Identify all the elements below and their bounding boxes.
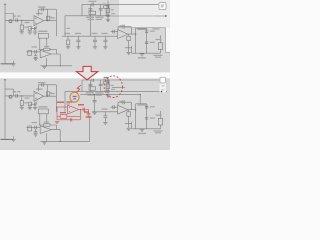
resistor R2 [28,27,31,31]
capacitor C15 [145,30,148,32]
wire feedback right drop [46,9,48,20]
wire fb2 right (bottom) [50,124,56,126]
label R1 value (bottom) [24,102,29,103]
label U1A [36,13,43,14]
ground G2 (bottom) [28,108,32,110]
wire fb2 left [38,48,43,50]
dashed wire highlight [156,15,165,17]
resistor R6 (bottom) [28,126,32,131]
gray d3 drop [94,95,96,112]
wire d1 drop [67,36,69,40]
node A junction [21,20,22,21]
node A junction (bottom) [21,95,22,96]
capacitor C1 [15,18,17,22]
annotation squiggle [76,85,81,93]
wire feedback left drop [38,9,40,15]
capacitor C10 (bottom) [103,116,107,118]
capacitor C2 feedback [41,7,43,11]
U1A input marks (bottom) [35,94,37,99]
wire left bottom (bottom) [1,138,14,140]
input connector arrow (bottom) [4,79,6,81]
wire input signal [5,19,34,21]
label U2 line1 (bottom) [86,92,104,93]
wire input signal (bottom) [5,95,34,97]
label out1 [154,55,163,56]
label input b (bottom) [25,98,30,99]
label chain (bottom) [103,79,114,86]
wire d4 drop (bottom) [104,112,106,116]
power rail top (bottom) [82,79,166,81]
label C2 [38,6,46,7]
wire R7 top (bottom) [128,110,130,112]
wire C12 gnd (bottom) [35,133,37,134]
wire st3 input [111,31,118,33]
zoom icon bottom [160,77,166,83]
label out2 (bottom) [155,132,161,133]
ground G7 [93,46,97,48]
red label a [78,104,84,105]
wire U1A inverting drop (bottom) [35,101,37,104]
wire d4 drop [104,36,106,40]
input jack J1 (bottom) [9,95,12,98]
wire drop B [100,4,102,15]
wire out drop [59,54,61,66]
red label b [84,111,89,112]
ground G11 (bottom) [11,139,15,141]
node F junction [94,94,95,95]
red wire stage input [56,106,67,108]
node H junction [107,79,108,80]
red wire fb left [56,107,58,120]
wire jack feed (bottom) [160,111,162,118]
ground G12 (bottom) [140,129,144,131]
label stage2 b [44,46,49,47]
wire R1 to ground [21,30,23,32]
label rail1 [64,33,70,34]
red junction out [80,109,81,110]
wire out drop (bottom) [59,130,61,142]
wire feedback left drop (bottom) [38,85,40,91]
dashed wire highlight (bottom) [156,91,165,93]
label st3 top [138,29,148,30]
label chain [103,3,106,4]
capacitor C16 [145,41,148,43]
wire VR1 left leg (bottom) [39,114,41,125]
wire R2 to ground (bottom) [29,106,31,108]
canvas border vertical [165,28,167,53]
ground G13 [126,52,130,54]
red op-amp U3 [68,105,79,114]
wire R2 to ground [29,30,31,32]
wire feedback right drop (bottom) [46,85,48,96]
label stage2 a [32,46,38,47]
node E junction (bottom) [135,109,136,110]
resistor R6 [28,50,32,55]
red U3 input marks [69,106,70,108]
bottom schematic background [0,78,170,150]
capacitor C6 (bottom) [99,84,103,86]
capacitor C10 [103,39,107,41]
wire R1 to ground (bottom) [21,106,23,108]
output jack J2 (bottom) [158,118,162,125]
wire out bus [135,28,137,53]
input line lead dots (bottom) [14,95,32,98]
wire fb2 drop (bottom) [55,125,57,130]
capacitor C4 [33,27,35,30]
capacitor C16 (bottom) [145,118,148,120]
ground G10 (bottom) [42,142,46,144]
wire fb3 right (bottom) [130,102,132,110]
wire VR1 right leg [46,38,48,48]
diode D1 (bottom) [92,78,94,82]
strip marks [162,85,165,86]
node B junction (bottom) [47,96,48,97]
gray rail bottom [92,111,118,113]
wire R7 bot [128,41,130,52]
ground G4 (bottom) [106,95,110,97]
ground G8 [103,46,107,48]
label volume [153,28,160,29]
label st3 top (bottom) [138,104,148,105]
label jack (bottom) [156,115,162,116]
ground G12 [140,53,144,55]
label input b [25,22,30,23]
wire U1A inverting drop [35,26,37,29]
wire power vertical (bottom) [64,91,66,111]
red ground G22 [86,113,90,115]
label chain b [111,13,115,14]
capacitor C6 [99,8,103,10]
ground G11 [11,63,15,65]
red wire out drop [88,110,90,114]
switch S1 body [106,8,109,13]
capacitor C11 (bottom) [35,126,37,130]
canvas border horizontal [119,27,166,29]
label GND [138,57,146,58]
op-amp U1C [118,30,128,39]
wire R3 drop [105,8,107,15]
bottom-right light strip [160,77,167,93]
resistor R4 [66,40,69,45]
wire cap link [146,28,148,53]
capacitor C5 (bottom) [88,84,92,86]
ground G9 [33,57,37,59]
red wire fb bottom [57,119,80,121]
IC charge pump U2 (bottom) [89,87,96,90]
wire out bus (bottom) [135,104,137,129]
resistor R5 feedback (bottom) [44,124,50,126]
IC charge pump U2 [89,11,96,14]
wire C9 gnd [94,42,96,47]
node end dot [161,91,163,93]
power rail mid [65,15,111,17]
wire R7 bot (bottom) [128,116,130,127]
wire fb2 drop [55,49,57,54]
wire U1A output [44,20,57,22]
capacitor C13 [122,25,124,29]
wire C4 to ground (bottom) [34,106,36,108]
capacitor C3 electrolytic [46,16,49,20]
label C2 (bottom) [38,82,46,83]
potentiometer VR1 (bottom) [38,109,48,114]
node D junction [60,65,61,66]
label stage2 b (bottom) [44,122,49,123]
ground G3 [33,31,37,33]
wire st2 gnd drop [35,54,37,56]
capacitor C12 [34,55,38,57]
label D1 [89,1,97,2]
annotation circle highlight [70,92,79,102]
potentiometer VR1 [38,33,48,38]
wire R1 drop (bottom) [21,96,23,101]
wire short link [112,86,125,88]
wire st3 input (bottom) [111,106,118,108]
wire jack gnd [160,49,162,53]
red label c [86,116,92,117]
red label top1 [57,102,64,103]
wire U1B out [51,53,60,55]
wire stage2 bottom [40,65,72,67]
capacitor C15 (bottom) [145,107,148,109]
capacitor C11 [34,50,36,54]
wire wiper (bottom) [125,122,132,124]
wire d2 drop [77,36,79,40]
wire fb3 left [117,27,119,30]
resistor R2 (bottom) [28,102,31,106]
red ground G21 [55,120,59,122]
label rail4 (bottom) [102,108,108,109]
red resistor R10 [60,114,67,118]
gray link wire [80,94,140,96]
wire pot bus [131,46,133,53]
label C15 [150,31,155,32]
resistor R3 (bottom) [104,81,109,84]
label rail4 [102,33,108,34]
label rail3 [92,33,98,34]
ground G3 (bottom) [33,108,37,110]
node C junction (bottom) [165,91,167,93]
wire stage1 out vertical [55,9,57,36]
ground G9 (bottom) [33,134,37,136]
label chain b (bottom) [111,89,115,90]
input jack J1 [9,20,12,23]
wire st2 input (bottom) [26,126,40,128]
wire R4 gnd [67,45,69,47]
label U1A out [51,17,56,18]
capacitor C3 electrolytic (bottom) [46,92,52,96]
wire U1C out [128,33,136,35]
node G junction [140,94,141,95]
label U2 line1 [86,17,94,18]
ground G1 (bottom) [20,107,24,109]
wire drop A (bottom) [89,80,91,91]
wire fb2 left (bottom) [38,124,43,126]
ground G8 (bottom) [103,122,107,124]
wire input loop top (bottom) [5,88,14,90]
wire fb3 left (bottom) [117,102,119,105]
diode D1 [91,3,93,7]
label U2 line2 (bottom) [88,94,103,95]
resistor R1 [20,25,23,30]
wire right edge link [165,80,167,92]
wire rail corner [81,4,83,15]
capacitor C7 chain [106,4,109,6]
resistor R5 feedback [44,48,50,50]
label C15 (bottom) [150,106,155,107]
power rail mid (bottom) [65,90,111,92]
top-right light canvas zone [119,0,170,28]
power rail right (bottom) [111,91,166,93]
wire st2 input [26,51,40,53]
capacitor C9 [93,39,97,41]
op-amp U1A [34,16,44,26]
label small mid (bottom) [67,103,71,104]
wire jack feed [160,35,162,42]
label GND (bottom) [138,133,146,134]
op-amp U1C (bottom) [118,105,128,114]
label C16 (bottom) [150,117,155,118]
output jack J2 [158,43,162,50]
wire st2 gnd drop (bottom) [35,129,37,131]
red mod arrow [76,66,97,79]
label out1 (bottom) [154,130,163,131]
label VR1 [39,31,48,32]
red capacitor C21 [82,108,84,112]
red label R10 [60,112,66,113]
wire C4 to ground [34,30,36,32]
wire fb3 right [130,27,132,34]
wire C10 gnd [104,42,106,47]
capacitor C13 (bottom) [123,100,125,104]
wire feedback top [39,8,57,10]
wire drop A [89,4,91,15]
wire st3 fb top (bottom) [118,101,131,103]
power chain vertical [107,1,109,23]
red label top2 [67,101,73,102]
wire gnd stub (bottom) [12,136,14,139]
switch S1 body (bottom) [106,84,109,89]
wire top link (bottom) [136,103,147,105]
label C1 (bottom) [13,91,21,92]
wire power vertical [64,16,66,36]
wire jack gnd (bottom) [160,125,162,129]
wire link drop [139,95,141,104]
ground G6 [76,46,80,48]
wire R7 top [128,34,130,36]
label stage2 a (bottom) [32,122,38,123]
wire U1B out (bottom) [51,129,60,131]
wire below U1A [30,28,36,30]
canvas border right [166,51,171,53]
input line lead dots [13,19,16,22]
label U1A out (bottom) [51,93,56,94]
red wire U3 out [79,109,89,111]
wire cap link (bottom) [146,104,148,129]
power rail top [82,3,166,5]
wire U1A output (bottom) [44,95,57,97]
label C16 [150,42,155,43]
capacitor C7 chain (bottom) [106,81,109,83]
wire st3 bottom [132,52,161,54]
power chain vertical (bottom) [107,76,109,98]
wire R1 drop [21,20,23,25]
capacitor C8 [76,39,80,41]
U1A input marks [35,17,37,19]
op-amp U1B (bottom) [40,126,51,134]
capacitor C14 [112,30,114,34]
capacitor C1 (bottom) [16,94,18,98]
red capacitor C20 [69,118,71,121]
capacitor C12 (bottom) [34,131,38,133]
wire input loop drop (bottom) [13,89,15,96]
red wire R10 left [57,115,60,117]
input connector arrow [4,3,6,5]
white separator band [0,72,170,80]
wire fb2 right [50,48,56,50]
ground G4 [106,19,110,21]
top schematic background [0,0,170,73]
label U2 line2 [88,19,95,20]
resistor R7 [127,36,131,40]
resistor R3 [104,6,109,9]
wire pot bus (bottom) [131,122,133,129]
node C junction [165,15,167,17]
wire stage1 out vertical (bottom) [55,85,57,112]
wire left bottom [1,63,14,65]
right white margin [166,28,170,53]
label band [104,77,109,78]
wire C8 gnd [77,42,79,47]
wire mod riser [89,118,91,142]
ground G13 (bottom) [126,128,130,130]
wire U1B bias drop (bottom) [46,133,48,141]
label st3 in (bottom) [120,101,126,102]
capacitor C14 (bottom) [113,105,115,109]
chain marks (bottom) [106,91,109,92]
wire VR1 right leg (bottom) [46,114,48,124]
wire C12 gnd [35,57,37,58]
red wire fb right [79,110,81,120]
label U1A (bottom) [36,89,43,90]
label R1 value [24,27,29,28]
resistor R1 (bottom) [20,101,23,106]
wire stage2 bottom (bottom) [40,140,72,142]
op-amp U1A (bottom) [34,91,44,101]
wire C10 gnd (bottom) [104,117,106,122]
bias rail [62,35,118,37]
label jack [156,39,162,40]
wire bias feed [89,16,91,36]
ground G1 [20,31,24,33]
capacitor C2 feedback (bottom) [42,83,44,87]
ground G2 [28,31,32,33]
wire feedback top (bottom) [39,84,57,86]
wire input left vertical (bottom) [4,80,6,140]
label small mid [67,28,71,29]
node B junction [47,20,48,21]
label VR1 (bottom) [39,106,48,107]
label C1 [13,15,17,16]
wire input loop drop [13,14,15,21]
node E junction [135,34,136,35]
label st3 in [120,25,126,26]
node D junction (bottom) [60,141,61,142]
wire st3 bottom (bottom) [132,128,161,130]
capacitor C5 [88,8,92,10]
power rail right [111,15,166,17]
wire wiper [125,47,132,49]
wire st3 fb top [118,26,131,28]
